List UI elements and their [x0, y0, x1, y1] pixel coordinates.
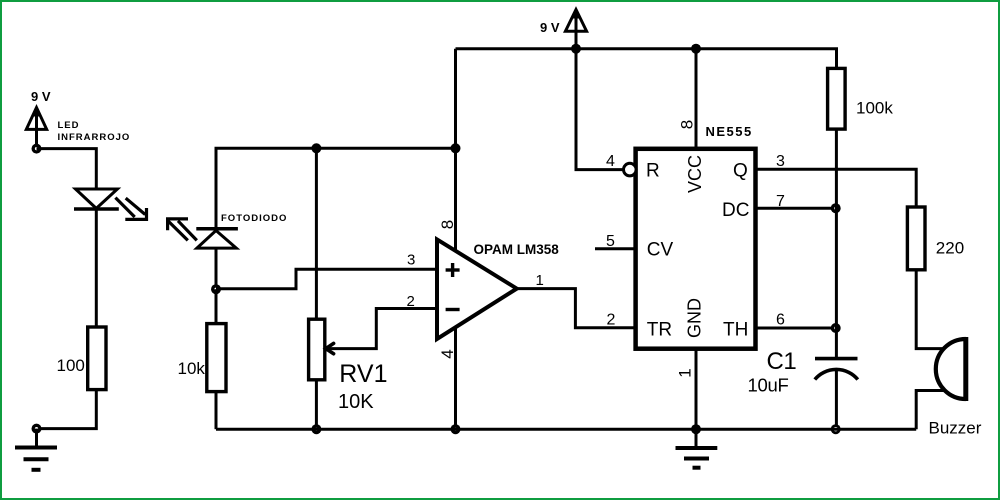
- label pin 3 opamp: [407, 252, 415, 269]
- resistor R 10k: [207, 324, 226, 392]
- svg-text:1: 1: [536, 272, 544, 289]
- svg-text:INFRARROJO: INFRARROJO: [58, 132, 131, 143]
- svg-text:2: 2: [607, 312, 616, 329]
- potentiometer RV1: [309, 319, 325, 380]
- svg-text:LED: LED: [58, 120, 80, 131]
- svg-text:1: 1: [676, 368, 695, 377]
- label pin 8 opamp: [438, 220, 457, 229]
- svg-text:CV: CV: [647, 240, 674, 261]
- label 9 V right: [540, 20, 560, 35]
- resistor R 100k: [828, 68, 846, 129]
- label LED INFRARROJO: [58, 120, 131, 143]
- label FOTODIODO: [221, 213, 287, 224]
- node 555 GND rail junction: [691, 424, 701, 434]
- label pin 7 555: [776, 193, 785, 210]
- wire junction to opamp pin3: [216, 269, 437, 289]
- wire opamp V+ (pin8) vertical: [454, 49, 457, 252]
- op-amp plus input mark: [446, 263, 460, 277]
- node pin7 junction: [831, 203, 841, 213]
- wire 555 GND pin1 vertical: [695, 349, 698, 430]
- resistor R 100: [88, 327, 106, 390]
- wire opamp out to 555 TR: [517, 289, 636, 328]
- wire CV pin5 stub: [595, 247, 636, 250]
- resistor R 220: [907, 207, 925, 270]
- LED emission arrows: [115, 198, 146, 220]
- IC U2 NE555 box: [636, 149, 756, 349]
- label CV: [647, 240, 674, 261]
- label TR: [647, 320, 672, 341]
- svg-text:3: 3: [776, 153, 785, 170]
- label pin 6 555: [776, 312, 785, 329]
- svg-text:9 V: 9 V: [540, 20, 560, 35]
- wire TH pin6 stub: [756, 327, 836, 330]
- svg-text:GND: GND: [685, 298, 705, 338]
- label pin 2 555: [607, 312, 616, 329]
- svg-text:Q: Q: [733, 161, 748, 182]
- svg-text:6: 6: [776, 312, 785, 329]
- wire C1 to bottom rail: [835, 370, 838, 430]
- svg-text:4: 4: [606, 153, 615, 170]
- svg-text:C1: C1: [767, 348, 797, 375]
- label pin 5 555: [606, 233, 615, 250]
- label OPAM LM358: [474, 242, 560, 257]
- node left ground junction: [32, 424, 42, 434]
- svg-text:4: 4: [438, 349, 457, 358]
- svg-text:10k: 10k: [178, 359, 206, 378]
- wire bottom rail: [216, 428, 916, 431]
- wire 9V to 555 reset pin4: [576, 49, 624, 170]
- label 220: [936, 239, 964, 258]
- wire Q pin3 to 220: [756, 169, 917, 207]
- node C1 bottom junction: [831, 424, 841, 434]
- photodiode D2: [196, 229, 238, 289]
- svg-text:R: R: [646, 161, 660, 182]
- svg-text:RV1: RV1: [339, 360, 387, 388]
- node opamp pin4 bottom junction: [451, 424, 461, 434]
- wire junction down to R 10k: [215, 289, 218, 323]
- wire top 9V rail: [456, 49, 837, 69]
- node photodiode-10k junction: [211, 284, 221, 294]
- label pin 4 opamp: [438, 349, 457, 358]
- node supply-LED junction: [32, 144, 42, 154]
- label 9 V left: [31, 89, 51, 104]
- svg-text:TR: TR: [647, 320, 672, 341]
- wire RV1 bottom: [315, 380, 318, 429]
- op-amp U1 triangle: [437, 239, 517, 339]
- svg-text:DC: DC: [722, 200, 749, 221]
- label DC: [722, 200, 749, 221]
- label pin 1 opamp: [536, 272, 544, 289]
- svg-text:220: 220: [936, 239, 964, 258]
- wire LED cathode to R 100: [95, 209, 98, 327]
- label pin 1 555: [676, 368, 695, 377]
- ground left: [15, 429, 57, 470]
- label 100: [57, 356, 85, 375]
- svg-text:10K: 10K: [338, 391, 374, 413]
- wire 10k to bottom rail: [215, 392, 218, 430]
- label TH: [723, 320, 748, 341]
- svg-text:100: 100: [57, 356, 85, 375]
- label 10uF: [748, 374, 789, 395]
- svg-text:TH: TH: [723, 320, 748, 341]
- label VCC: [685, 155, 705, 193]
- wire 9V node to LED anode: [37, 149, 97, 189]
- node RV1 bottom junction: [311, 424, 321, 434]
- label RV1: [339, 360, 387, 388]
- label pin 8 555: [678, 120, 697, 129]
- label pin 4 555: [606, 153, 615, 170]
- svg-text:Buzzer: Buzzer: [929, 419, 982, 438]
- svg-text:NE555: NE555: [706, 124, 753, 139]
- wire opamp V- (pin4) vertical: [454, 327, 457, 430]
- svg-text:100k: 100k: [856, 99, 893, 118]
- power +9V right arrow: [565, 9, 586, 49]
- label Q: [733, 161, 748, 182]
- ground center: [676, 429, 718, 468]
- svg-text:OPAM LM358: OPAM LM358: [474, 242, 560, 257]
- wire mid rail (photodiode/RV1/opamp pin8 rail): [216, 148, 456, 229]
- LED D1: [74, 189, 119, 209]
- buzzer LS1: [936, 337, 966, 401]
- svg-text:2: 2: [407, 293, 415, 310]
- svg-text:8: 8: [678, 120, 697, 129]
- svg-text:FOTODIODO: FOTODIODO: [221, 213, 287, 224]
- svg-text:10uF: 10uF: [748, 374, 789, 395]
- svg-text:3: 3: [407, 252, 415, 269]
- photodiode incoming arrows: [168, 219, 197, 241]
- node 9V rail junction: [571, 44, 581, 54]
- svg-text:8: 8: [438, 220, 457, 229]
- node RV1 top junction: [311, 143, 321, 153]
- svg-text:5: 5: [606, 233, 615, 250]
- wire R100 to left ground: [37, 390, 97, 429]
- wire 555 VCC pin8 vertical: [695, 49, 698, 149]
- label GND: [685, 298, 705, 338]
- wire 220 to buzzer top: [916, 270, 945, 349]
- node 555 VCC rail junction: [691, 44, 701, 54]
- node opamp V+ junction: [451, 143, 461, 153]
- svg-text:9 V: 9 V: [31, 89, 51, 104]
- capacitor C1: [815, 359, 858, 380]
- power +9V left arrow: [26, 107, 46, 149]
- label NE555: [706, 124, 753, 139]
- label pin 2 opamp: [407, 293, 415, 310]
- label Buzzer: [929, 419, 982, 438]
- label R: [646, 161, 660, 182]
- label 10k: [178, 359, 206, 378]
- op-amp minus input mark: [446, 308, 460, 311]
- 555 reset inversion bubble: [624, 163, 637, 176]
- label 100k: [856, 99, 893, 118]
- wire buzzer bottom to rail: [916, 391, 945, 430]
- node pin6 junction: [831, 323, 841, 333]
- label C1: [767, 348, 797, 375]
- wire DC pin7 stub: [756, 207, 836, 210]
- wire RV1 top: [315, 148, 318, 319]
- wire 100k down through junctions to C1: [835, 129, 838, 359]
- svg-text:VCC: VCC: [685, 155, 705, 193]
- label pin 3 555: [776, 153, 785, 170]
- RV1 wiper arrow: [326, 309, 437, 354]
- label 10K: [338, 391, 374, 413]
